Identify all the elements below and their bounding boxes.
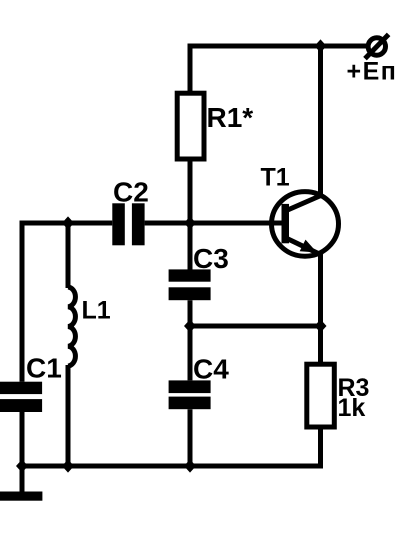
capacitor C1 — [0, 382, 42, 412]
svg-text:+Eп: +Eп — [347, 58, 396, 86]
wire top rail from R1 top to +En terminal — [190, 46, 366, 91]
wire L1 branch bottom — [66, 365, 71, 466]
node at L1 bottom — [62, 459, 74, 472]
wire C2 left plate to left branch down to C1 top — [22, 223, 112, 382]
capacitor C2 — [112, 203, 144, 245]
resistor R3 — [307, 364, 335, 427]
svg-text:L1: L1 — [82, 296, 111, 324]
svg-text:C1: C1 — [26, 352, 62, 383]
node at emitter row — [315, 319, 327, 332]
node at ground stem — [16, 459, 28, 472]
wire node row between C3/C4 junction and emitter branch — [190, 324, 321, 329]
svg-text:C4: C4 — [193, 354, 229, 385]
node at C2/L1 — [62, 216, 74, 229]
capacitor C3 — [169, 269, 211, 300]
wire R1 bottom to base node and down to C3 top — [188, 161, 193, 270]
node at C3/C4 — [184, 319, 196, 332]
wire C3 bottom to node row to C4 top — [188, 300, 193, 380]
wire R3 bottom to bottom rail to left end — [20, 429, 321, 466]
capacitor C4 — [169, 380, 211, 409]
node at base — [184, 216, 196, 229]
svg-text:C2: C2 — [113, 176, 149, 207]
resistor R1 — [177, 93, 204, 159]
node at C4 bottom — [184, 459, 196, 472]
wire C4 bottom to bottom rail — [188, 409, 193, 466]
wire base node to transistor base — [145, 221, 282, 226]
wire C1 bottom through bottom rail to ground — [20, 412, 25, 492]
ground — [0, 492, 42, 501]
wire L1 branch top — [66, 223, 71, 288]
wire emitter drop from T1 to R3 top — [318, 254, 323, 364]
power terminal — [365, 34, 389, 58]
transistor T1 — [272, 192, 339, 257]
node at rail/collector — [315, 39, 327, 52]
svg-text:R1*: R1* — [207, 102, 254, 133]
svg-text:T1: T1 — [261, 163, 290, 191]
inductor L1 — [68, 287, 75, 366]
svg-text:1k: 1k — [338, 394, 366, 422]
svg-text:C3: C3 — [193, 243, 229, 274]
wire collector drop from rail to T1 — [318, 46, 323, 194]
